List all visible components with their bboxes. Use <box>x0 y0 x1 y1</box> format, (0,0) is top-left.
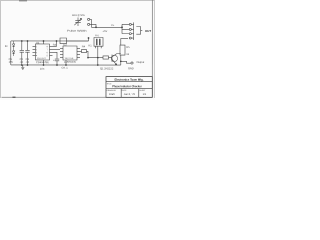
resistor R1 in rail <box>60 38 67 44</box>
svg-text:Electronics Town Mfg.: Electronics Town Mfg. <box>114 78 143 82</box>
wire taps to pins <box>122 24 129 33</box>
U1 gnd stub <box>42 60 44 65</box>
ground bus <box>11 64 121 66</box>
svg-text:R4: R4 <box>82 44 86 48</box>
plug P1 <box>136 27 142 35</box>
capacitor C1 <box>20 41 24 65</box>
wire U1 pin6 <box>52 52 57 59</box>
svg-text:Jan 8, '78: Jan 8, '78 <box>124 92 136 96</box>
svg-text:10u: 10u <box>9 60 14 64</box>
svg-text:DRAWN BY: DRAWN BY <box>107 89 117 92</box>
relay K1 coil bars <box>97 39 100 45</box>
stub node <box>88 38 90 41</box>
svg-text:.1u: .1u <box>26 60 30 64</box>
page left edge <box>0 0 2 98</box>
transistor Q1 <box>108 54 120 65</box>
collector resistor R5 <box>120 45 125 55</box>
node rail C1 <box>21 40 22 41</box>
svg-text:Draft: Draft <box>109 92 115 96</box>
svg-text:IN: IN <box>5 44 8 48</box>
trimmer capacitor C4 <box>74 17 81 26</box>
ground symbol <box>21 65 24 70</box>
connector J1 pin2 <box>129 28 131 30</box>
svg-text:Pulse Width: Pulse Width <box>67 29 87 33</box>
svg-text:V+: V+ <box>111 23 115 27</box>
capacitor C5 <box>55 59 59 65</box>
collector line to bus <box>120 55 122 65</box>
base wire <box>88 57 103 59</box>
svg-text:C9 .1: C9 .1 <box>61 66 68 70</box>
U1 left pins <box>32 46 35 55</box>
svg-text:Output: Output <box>136 60 144 64</box>
resistor R4 <box>81 50 86 53</box>
svg-text:Phase Inductor Checker: Phase Inductor Checker <box>112 84 142 88</box>
U1 right pins <box>49 46 52 55</box>
U2 right pins <box>77 48 80 57</box>
svg-text:OUT: OUT <box>145 29 151 33</box>
svg-text:CLK OUT: CLK OUT <box>37 58 46 60</box>
svg-text:K1: K1 <box>89 43 93 47</box>
connector J1 pin1 <box>129 23 131 25</box>
node rail C2 <box>27 40 28 41</box>
wire from contact B <box>90 24 96 27</box>
wire U1 pin8 to rail <box>53 41 57 46</box>
svg-text:DATE: DATE <box>122 89 127 92</box>
title block frame <box>106 77 152 98</box>
sheet right border <box>151 0 153 97</box>
U2 left pins <box>60 48 63 57</box>
svg-text:.1u: .1u <box>20 60 24 64</box>
wire U1 pin7 <box>53 48 61 50</box>
input wire <box>10 41 12 65</box>
wire from contact A <box>90 19 92 27</box>
connector J1 body <box>131 22 133 40</box>
node junction <box>121 27 122 28</box>
IC U2 box <box>63 46 77 60</box>
svg-text:+5V: +5V <box>103 29 108 33</box>
svg-text:SHEET: SHEET <box>139 90 146 92</box>
svg-text:Q1 2N2222: Q1 2N2222 <box>100 66 114 70</box>
supply rail <box>11 40 89 42</box>
svg-text:R3: R3 <box>53 43 57 47</box>
relay pin stubs <box>95 46 101 48</box>
U2 gnd stub <box>65 60 67 65</box>
diode D2 <box>12 47 14 56</box>
connector J1 pin3 <box>129 33 131 35</box>
svg-text:GND: GND <box>128 66 134 70</box>
relay wire to bus <box>97 46 99 65</box>
svg-text:U1: U1 <box>36 41 40 45</box>
collector line to connector <box>121 39 128 46</box>
node at feed line <box>95 27 96 28</box>
relay K1 box <box>94 38 103 47</box>
bottom border smudge <box>12 96 15 98</box>
page top edge <box>0 0 155 2</box>
transistor Q1 body circle <box>111 55 117 61</box>
page edge smudge <box>19 0 27 2</box>
page right edge <box>153 0 155 98</box>
U1 vcc stub <box>43 41 45 44</box>
resistor R2 base <box>103 56 109 59</box>
connector J1 pin4 <box>129 37 131 39</box>
capacitor C2 <box>25 41 29 65</box>
sheet bottom border <box>1 96 152 98</box>
switch S1 contact B <box>88 23 90 25</box>
output terminal <box>131 62 133 64</box>
svg-text:1kHz @ 50%: 1kHz @ 50% <box>72 13 85 17</box>
feed wire to connector <box>91 26 122 28</box>
svg-text:U2: U2 <box>63 42 67 46</box>
svg-text:10n: 10n <box>40 67 45 71</box>
svg-text:1/1: 1/1 <box>143 92 147 96</box>
svg-text:R5: R5 <box>126 45 130 49</box>
diode D1 <box>12 41 14 47</box>
rail continues <box>67 40 89 42</box>
svg-text:CD4047BE: CD4047BE <box>36 60 49 64</box>
switch S1 contact A <box>88 18 90 20</box>
output wire <box>121 61 131 63</box>
IC U1 box <box>35 44 49 60</box>
